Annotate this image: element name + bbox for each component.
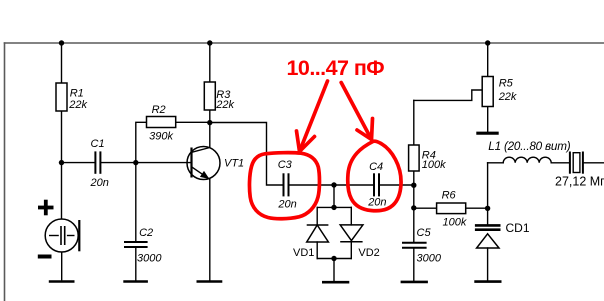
svg-text:22k: 22k	[498, 91, 517, 103]
svg-text:VD1: VD1	[293, 247, 314, 259]
svg-text:10...47 пФ: 10...47 пФ	[287, 56, 385, 80]
svg-text:C4: C4	[369, 161, 383, 173]
svg-text:3000: 3000	[417, 252, 442, 264]
svg-text:3000: 3000	[137, 253, 162, 265]
svg-text:R5: R5	[499, 77, 514, 89]
svg-text:VT1: VT1	[224, 158, 244, 170]
svg-text:C1: C1	[91, 138, 105, 150]
svg-text:20n: 20n	[367, 197, 386, 209]
svg-text:VD2: VD2	[358, 247, 379, 259]
svg-text:100k: 100k	[443, 217, 467, 229]
svg-text:L1 (20...80 вит): L1 (20...80 вит)	[488, 140, 570, 153]
svg-text:R6: R6	[442, 190, 457, 202]
svg-text:R1: R1	[70, 88, 84, 100]
svg-text:C5: C5	[417, 227, 432, 239]
svg-text:CD1: CD1	[506, 221, 530, 235]
svg-text:22k: 22k	[215, 99, 234, 111]
svg-text:100k: 100k	[422, 159, 446, 171]
svg-text:R2: R2	[152, 104, 166, 116]
svg-text:20n: 20n	[90, 177, 109, 189]
svg-text:390k: 390k	[149, 131, 173, 143]
svg-text:27,12 Мгц: 27,12 Мгц	[555, 175, 604, 189]
svg-text:C2: C2	[139, 227, 153, 239]
svg-text:22k: 22k	[68, 99, 87, 111]
svg-text:C3: C3	[278, 159, 293, 171]
svg-text:20n: 20n	[277, 199, 296, 211]
